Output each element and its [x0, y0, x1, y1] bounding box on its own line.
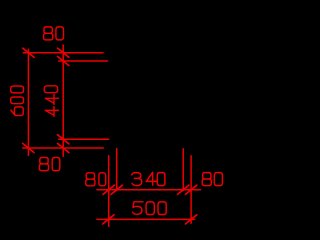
text 600: middle digit 0 (rotated) [11, 97, 24, 104]
extension line top of 600 dim / dim line of top 80 [23, 52, 103, 54]
text 500: digit 5 [133, 202, 143, 215]
oblique tick lower-left 80 right [58, 143, 69, 152]
text 440: bottom digit 4 (rotated) [45, 107, 58, 117]
text 340: digit 4 [146, 172, 157, 185]
text 500: second digit 0 [158, 202, 166, 215]
text 80 (bottom chain right): digit 8 [202, 173, 211, 186]
extension line bottom of 440 dim [59, 138, 109, 140]
oblique tick 440 bottom [58, 135, 69, 144]
dim line 500 [97, 218, 195, 220]
text 80 (lower-left dim): digit 0 [52, 158, 60, 171]
oblique tick bottom chain at x=183.2 [178, 185, 189, 194]
text 80 (bottom chain left): digit 0 [99, 173, 106, 186]
oblique tick top-80 right / 440 line top cross [58, 48, 69, 57]
text 80 (lower-left dim): digit 8 [39, 158, 48, 171]
oblique tick bottom chain at x=116.7 [111, 185, 122, 194]
oblique tick bottom chain at x=191.1 [185, 185, 196, 194]
text 340: digit 0 [157, 173, 165, 186]
dim line 80/340/80 chain [97, 189, 201, 191]
text 600: digit 6 bowl [14, 107, 23, 116]
extension line outer-left of 500 dim [108, 156, 110, 227]
oblique tick 500 right [185, 215, 196, 224]
oblique tick 440 top [58, 56, 69, 65]
text 600: top digit 0 (rotated) [11, 86, 24, 93]
text 80 (bottom chain right): digit 0 [214, 173, 222, 186]
extension line outer-right of 500 dim [190, 156, 192, 224]
text 440: middle digit 4 (rotated) [45, 95, 58, 105]
oblique tick top-80 left / 600 top [23, 48, 34, 57]
text 80 (top dim): digit 8 [44, 27, 53, 40]
text 80 (top dim): digit 0 [56, 27, 64, 40]
extension line top of 440 dim [59, 60, 108, 62]
text 80 (bottom chain left): digit 8 [86, 173, 95, 186]
text 340: digit 3 [132, 173, 142, 186]
oblique tick 500 left [103, 215, 114, 224]
text 600 (left dim, rotated): digit 6 tail [11, 110, 15, 115]
extension line inner-left of 340 dim [116, 149, 118, 191]
extension line bottom of 600 dim / dim line of lower-left 80 [23, 147, 103, 149]
extension line inner-right of 340 dim [182, 149, 184, 191]
text 440 (inner dim, rotated): top digit 0 [44, 86, 57, 93]
oblique tick 600 bottom / lower-left 80 left [23, 143, 34, 152]
dim line 600 (vertical) [27, 49, 29, 155]
dim line 440 (vertical) [62, 45, 64, 156]
text 500: first digit 0 [146, 202, 154, 215]
oblique tick bottom chain at x=108.7 [103, 185, 114, 194]
